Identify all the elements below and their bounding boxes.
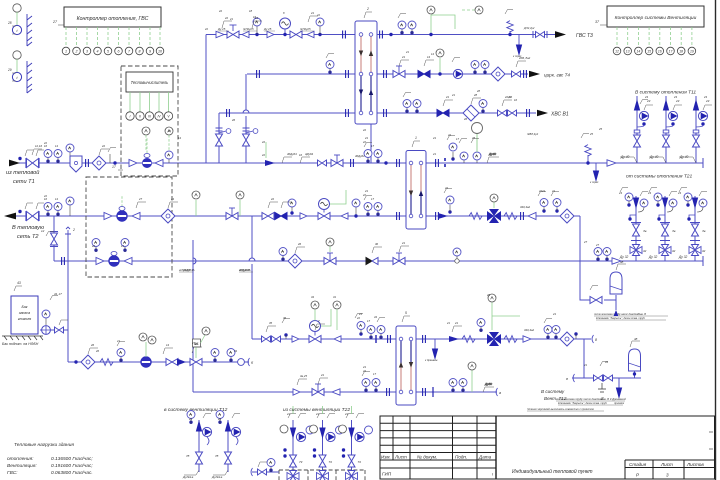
pump on H2 [452, 58, 463, 79]
svg-text:после монтажа трубу насос дово: после монтажа трубу насос доводовВыв. В [594, 313, 646, 316]
glycol tank [2, 281, 43, 346]
open valve H6 [393, 253, 405, 265]
flange F2 [343, 31, 346, 39]
wire pipe H5 return T2 [14, 215, 580, 217]
instrument pair before HX2 [364, 150, 372, 164]
svg-text:22: 22 [362, 140, 366, 144]
wire drop T21-2 [664, 196, 666, 261]
wire pipe H12 bottom right drain [572, 377, 641, 379]
title block [380, 416, 715, 479]
svg-text:14: 14 [55, 197, 58, 201]
valve after HX2 on H5 [438, 213, 448, 219]
tap with instrument H1 right [316, 18, 324, 36]
svg-text:17: 17 [456, 137, 459, 141]
svg-text:21: 21 [344, 412, 348, 416]
svg-text:24: 24 [170, 197, 175, 201]
strainer H10 [81, 355, 95, 369]
drain valve on x54 [41, 229, 58, 247]
svg-text:Чтение чертежей выполнять совм: Чтение чертежей выполнять совместно с пр… [527, 407, 594, 411]
svg-text:III: III [148, 114, 151, 118]
diamond H8 end [560, 332, 574, 346]
note under vent T12 [556, 398, 625, 405]
svg-text:21: 21 [229, 17, 233, 21]
T11 riser group 2 [663, 99, 683, 147]
green dashed link top [462, 9, 476, 11]
svg-text:5: 5 [405, 311, 407, 315]
tap instrument H8 left [282, 319, 290, 340]
motor control valve H8 [309, 301, 341, 343]
svg-text:I: I [130, 114, 131, 118]
svg-text:14: 14 [55, 144, 58, 148]
instrument pair H9 end [449, 379, 457, 393]
svg-text:Ду40: Ду40 [488, 152, 496, 156]
instrument green above H8 [488, 294, 520, 330]
H6 end tick [702, 256, 704, 266]
instrument pair above H2 right [471, 61, 479, 75]
instrument H10 a [117, 349, 125, 363]
green control line H1 instrument link [431, 15, 455, 29]
svg-text:ГИП: ГИП [382, 472, 392, 477]
svg-text:а: а [499, 391, 501, 395]
gate valve H5 a [226, 208, 238, 220]
svg-text:340,4а2: 340,4а2 [524, 328, 535, 332]
tap dot on H4 [113, 161, 116, 164]
svg-text:26: 26 [463, 117, 468, 121]
svg-text:10: 10 [158, 49, 162, 53]
wire expansion1 vessel stub [604, 295, 616, 310]
svg-text:26: 26 [90, 343, 95, 347]
svg-text:44: 44 [605, 360, 608, 364]
note above title block [527, 407, 604, 411]
T21 drop group 1 [620, 188, 648, 256]
solenoid box H10 [193, 327, 211, 358]
tap H10 left [74, 360, 77, 363]
svg-text:48: 48 [634, 337, 638, 341]
double valve H8 left [262, 336, 281, 342]
wire riser x206 [205, 35, 207, 164]
svg-text:22: 22 [270, 197, 275, 201]
drain arrow down H1 [513, 35, 522, 59]
svg-text:22: 22 [261, 153, 265, 157]
flange F3 [380, 31, 383, 39]
instrument pair before HX3 bottom [362, 379, 370, 393]
svg-text:запаса: запаса [18, 311, 30, 315]
svg-text:40Ду64А: 40Ду64А [239, 268, 251, 272]
valve after pump H6 [124, 258, 132, 265]
svg-text:25: 25 [598, 127, 603, 131]
flange before HX2 [351, 159, 354, 167]
svg-text:44, 27: 44, 27 [54, 292, 62, 296]
pressure gauge H5 [66, 197, 74, 216]
svg-text:17: 17 [371, 144, 374, 148]
instrument trio H8 end [544, 326, 552, 340]
tank valve [55, 327, 64, 333]
svg-text:78: 78 [186, 454, 190, 458]
node label T2 outlet [4, 213, 45, 240]
svg-text:Ду 25: Ду 25 [217, 27, 226, 31]
outdoor sensor 2 [7, 51, 32, 93]
check arrow on H4 [265, 160, 275, 166]
svg-text:гликоля: гликоля [18, 317, 31, 321]
svg-text:Зв: Зв [702, 229, 706, 233]
valve small H5 [300, 213, 307, 219]
wire riser x68 tank [67, 234, 69, 362]
wire drop x193 [192, 240, 194, 392]
svg-text:9: 9 [149, 49, 151, 53]
valve arrow H1 d [307, 31, 314, 37]
gate valve H10 [190, 359, 202, 366]
svg-text:Тепловычислитель: Тепловычислитель [131, 80, 169, 85]
valve H9 b [332, 389, 340, 395]
flow meter on H4 [129, 138, 163, 168]
svg-text:22: 22 [444, 186, 448, 190]
valve arrow H1 c [267, 31, 274, 37]
gate valve T1 inlet [18, 157, 39, 168]
svg-text:21: 21 [320, 373, 325, 377]
svg-text:Клапанами "Закрыть", делен отв: Клапанами "Закрыть", делен отвв. труб. [558, 402, 608, 405]
wire drop x580 expansion1 [580, 216, 592, 300]
svg-text:22: 22 [261, 140, 266, 144]
node label cirk T4 [529, 71, 570, 78]
controller ventilation box [595, 6, 704, 27]
svg-text:3: 3 [666, 473, 669, 478]
teplovychislitel io circles [126, 112, 173, 120]
svg-text:15: 15 [647, 49, 651, 53]
svg-text:В систему отопления Т11: В систему отопления Т11 [635, 90, 696, 96]
svg-text:цирк. гвс Т4: цирк. гвс Т4 [544, 73, 570, 78]
node label T1 inlet [6, 160, 39, 185]
bottom left extra cluster [251, 459, 279, 477]
wire riser T11-1 [636, 96, 638, 163]
svg-text:28: 28 [473, 93, 478, 97]
svg-text:16: 16 [514, 98, 517, 102]
svg-text:К Дренажной: К Дренажной [610, 397, 626, 401]
svg-text:Зв: Зв [643, 229, 647, 233]
svg-text:Подп.: Подп. [455, 455, 467, 460]
wire pipe H2 cirk T4 [247, 73, 528, 75]
wire pipe H10 bottom left [68, 361, 249, 363]
tick H8 [375, 335, 377, 343]
wire drop T21-3 [694, 196, 696, 261]
svg-text:№ докум.: № докум. [417, 455, 437, 460]
instrument green after HX2 [471, 123, 483, 164]
double valve H5 [262, 213, 287, 220]
tag underline labels H1 [217, 27, 311, 31]
teplovychislitel dashed enclosure [121, 66, 178, 176]
control valve H1 [290, 31, 302, 38]
vibration insert H8 b [504, 336, 517, 343]
svg-text:Ду№1а: Ду№1а [182, 475, 194, 479]
svg-text:Контроллер системы Вентиляции: Контроллер системы Вентиляции [615, 15, 697, 21]
instrument pair above H1 right [398, 21, 406, 35]
pump with motor above H1 [280, 18, 291, 36]
outlet flag T2 [25, 203, 44, 209]
tank riser top fitting [65, 227, 75, 234]
thermometer after meter H4 [165, 151, 173, 163]
svg-text:12,16: 12,16 [35, 144, 42, 148]
inlet flag T1 [25, 150, 44, 156]
svg-text:48: 48 [620, 260, 624, 264]
svg-text:23: 23 [217, 417, 221, 421]
svg-text:22: 22 [538, 189, 542, 193]
filled valve on H3 [437, 110, 449, 117]
svg-text:Бак: Бак [21, 305, 27, 309]
svg-text:22: 22 [362, 369, 366, 373]
svg-text:ХВС В1: ХВС В1 [550, 112, 569, 118]
svg-text:8: 8 [595, 338, 597, 342]
instrument above meter [479, 100, 487, 114]
valve after pump H5 [132, 213, 140, 220]
controller2 signal drops [617, 27, 692, 47]
svg-text:26: 26 [231, 118, 236, 122]
svg-text:44: 44 [374, 315, 377, 319]
instrument green on H2 [436, 49, 444, 76]
outdoor sensor 1 [7, 4, 32, 46]
controller2 io circles [613, 47, 696, 55]
controller1 io circles [62, 47, 164, 55]
wire riser T12-2 [227, 420, 229, 472]
svg-text:17: 17 [371, 197, 374, 201]
svg-text:35: 35 [269, 321, 273, 325]
wire riser x246 [245, 74, 247, 163]
valve pair on H2 end [512, 71, 521, 77]
strainer diamond on H4 [92, 156, 106, 170]
svg-text:23: 23 [647, 191, 651, 195]
svg-text:22: 22 [447, 133, 451, 137]
note expansion vessel [594, 313, 668, 320]
svg-text:19: 19 [690, 49, 694, 53]
svg-text:13: 13 [626, 49, 630, 53]
svg-text:к дренажн.: к дренажн. [425, 358, 438, 362]
teplovychislitel box [112, 72, 173, 170]
flow sensor stub H4 [108, 148, 116, 164]
control valve H6 with green [324, 238, 336, 265]
flag at tank [59, 320, 68, 325]
svg-text:17: 17 [669, 49, 673, 53]
meter circle on H10 [238, 359, 245, 366]
green link T12 [265, 142, 267, 158]
svg-text:14: 14 [637, 49, 641, 53]
svg-text:21: 21 [364, 189, 369, 193]
svg-text:23: 23 [188, 417, 192, 421]
svg-text:21: 21 [364, 136, 369, 140]
svg-text:22: 22 [204, 27, 208, 31]
control valve pair riser x246 [243, 128, 258, 146]
svg-text:1: 1 [415, 136, 417, 140]
svg-text:22: 22 [218, 9, 223, 13]
svg-text:78: 78 [215, 454, 219, 458]
instrument circle top mid [475, 6, 483, 14]
valve H8 b [449, 336, 459, 342]
svg-text:Вентиляция:: Вентиляция: [7, 463, 37, 469]
svg-text:22: 22 [362, 128, 367, 132]
svg-text:21: 21 [446, 321, 450, 325]
instrument above H5 mid [288, 199, 296, 215]
svg-text:14: 14 [178, 136, 181, 140]
drain arrow down H8 [425, 339, 438, 362]
flange H3 end [527, 109, 530, 117]
node break label A [178, 268, 251, 272]
svg-text:16: 16 [658, 49, 662, 53]
tank pump [42, 326, 51, 335]
svg-text:0.063800 Гкал/час.: 0.063800 Гкал/час. [51, 470, 93, 476]
valve H9 a [293, 389, 300, 395]
svg-text:12: 12 [615, 49, 619, 53]
svg-text:16: 16 [44, 144, 47, 148]
wire riser T11-2 [665, 96, 667, 163]
instrument on H6 mid [453, 248, 461, 263]
H11 tick start [566, 374, 575, 382]
svg-text:21: 21 [286, 412, 290, 416]
check valve arrow on H4 right [607, 160, 616, 166]
svg-text:23: 23 [677, 191, 681, 195]
pump station dashed enclosure [86, 177, 172, 277]
T22 drop group 2 [310, 414, 344, 480]
wire pipe H4 supply T1 [16, 162, 703, 164]
flow computer instrument circles [142, 127, 150, 135]
water meter on H3 [463, 105, 479, 121]
svg-text:2: 2 [366, 7, 369, 11]
svg-text:Ду50: Ду50 [484, 382, 492, 386]
svg-text:27: 27 [191, 341, 195, 345]
svg-text:27: 27 [583, 240, 588, 244]
svg-text:ЖВЛ,4у2: ЖВЛ,4у2 [526, 132, 539, 136]
motor control valve on H5 [318, 190, 346, 220]
svg-text:Дата: Дата [478, 455, 492, 460]
wire riser T12-1 [198, 420, 200, 472]
svg-text:3: 3 [86, 49, 88, 53]
svg-text:из тепловой: из тепловой [6, 169, 39, 176]
instrument pair above H4 left [44, 150, 52, 164]
svg-text:Ду 32: Ду 32 [678, 255, 688, 259]
Du32 flags at T21 drop bases [619, 255, 688, 259]
strainer H6 [288, 254, 302, 268]
T12 bottom flags [184, 470, 228, 475]
flange H4 at HX2 [397, 159, 400, 167]
wire hop x246 on H3 [243, 110, 249, 113]
wire pipe H9 vent return [193, 391, 497, 393]
svg-text:после монтажа трубу тепло дово: после монтажа трубу тепло доводовВыв. В [556, 398, 609, 401]
svg-text:22: 22 [362, 193, 366, 197]
wire drop T22-1 [292, 420, 294, 480]
instrument green stem H1 [427, 6, 435, 36]
svg-text:22: 22 [91, 244, 95, 248]
svg-text:Клапанами "Закрыть", делен отв: Клапанами "Закрыть", делен отвв. труб. [596, 317, 646, 320]
expansion vessel 2 [629, 337, 641, 376]
T12 riser group 1 [186, 411, 212, 465]
svg-text:Ду№1а: Ду№1а [211, 475, 223, 479]
controller1 signal drops [66, 27, 160, 47]
svg-text:21: 21 [445, 95, 450, 99]
wire drop T22-2 [322, 420, 324, 480]
instrument green above strainer [192, 191, 200, 216]
svg-text:8: 8 [139, 49, 141, 53]
gate valve T2 outlet [18, 210, 39, 221]
flange after filter [86, 159, 89, 167]
svg-text:Ду 32: Ду 32 [619, 255, 629, 259]
node label GVS T3 [533, 31, 593, 39]
wire riser x219 [218, 113, 220, 163]
flange pairs at HX1 [346, 70, 349, 78]
node label HVS V1 [537, 110, 569, 118]
drain arrow down H4 [590, 163, 599, 184]
T21 drop group 2 [649, 188, 677, 256]
wire drop T21-1 [635, 196, 637, 261]
H12 drain arrow [610, 388, 626, 406]
svg-text:18: 18 [679, 49, 683, 53]
mud filter pentagon on H4 [70, 156, 82, 172]
svg-text:14: 14 [431, 52, 434, 56]
wire riser T11-3 [695, 96, 697, 163]
circulation pump H6 [109, 256, 119, 266]
strainer H5 end [560, 209, 574, 223]
assorted tag flags top area [32, 16, 526, 385]
flange after HX3 bottom [423, 388, 426, 396]
gate valve on H2 [393, 66, 405, 78]
vibration insert H10 [100, 359, 113, 366]
svg-text:40Ду64: 40Ду64 [287, 152, 297, 156]
svg-text:28: 28 [476, 89, 480, 93]
flange H9 [387, 388, 390, 396]
flag labels on H4 mid [282, 157, 310, 163]
svg-text:23: 23 [673, 95, 677, 99]
svg-text:17: 17 [373, 372, 376, 376]
svg-text:28: 28 [7, 21, 12, 25]
heat exchanger HX3 [396, 311, 416, 405]
vibration insert H5 b [504, 213, 517, 220]
valve arrow H1 a [216, 31, 224, 37]
wire tank line [40, 329, 68, 331]
svg-text:4Ду64: 4Ду64 [305, 152, 314, 156]
svg-text:2: 2 [72, 228, 75, 232]
instrument H10 b [211, 349, 219, 363]
check valve H6 [96, 258, 104, 265]
svg-text:40Ду64А: 40Ду64А [183, 268, 195, 272]
strainer diamond on H2 [491, 67, 505, 81]
svg-text:29: 29 [7, 68, 12, 72]
pump H10 with green sensors [139, 333, 156, 367]
pressure gauge cluster H4 [66, 144, 74, 163]
instrument above strainer H6 [279, 248, 287, 262]
svg-text:26: 26 [95, 349, 99, 353]
svg-text:Листов: Листов [686, 462, 704, 467]
strainer H8 far end [592, 335, 597, 343]
gate valve H9 [312, 384, 324, 396]
svg-text:отопления:: отопления: [7, 457, 34, 462]
svg-text:В тепловую: В тепловую [12, 225, 45, 231]
T21 drop group 3 [679, 188, 707, 256]
instrument trio H5 end [538, 192, 548, 213]
svg-text:5: 5 [107, 49, 109, 53]
svg-text:21: 21 [362, 365, 367, 369]
control valve actuator on H4 [331, 155, 343, 167]
filled valve on H2 [418, 71, 430, 78]
wire vessel2 stub [619, 371, 635, 388]
double pump H5 [487, 194, 501, 223]
controller otopleniya box [52, 7, 161, 27]
svg-text:21: 21 [432, 152, 436, 156]
svg-text:16: 16 [299, 153, 302, 157]
instrument green 2 [236, 191, 244, 216]
flag H9 end [483, 382, 494, 392]
svg-text:23: 23 [675, 99, 680, 103]
H10 end tick [248, 358, 254, 366]
strainer H5 [161, 209, 175, 223]
svg-text:Контроллер отопления, ГВС: Контроллер отопления, ГВС [77, 16, 149, 22]
svg-text:ГВС Т3: ГВС Т3 [576, 33, 593, 39]
flange H5 at HX2 [397, 212, 400, 220]
tiny tag numbers [35, 9, 603, 378]
